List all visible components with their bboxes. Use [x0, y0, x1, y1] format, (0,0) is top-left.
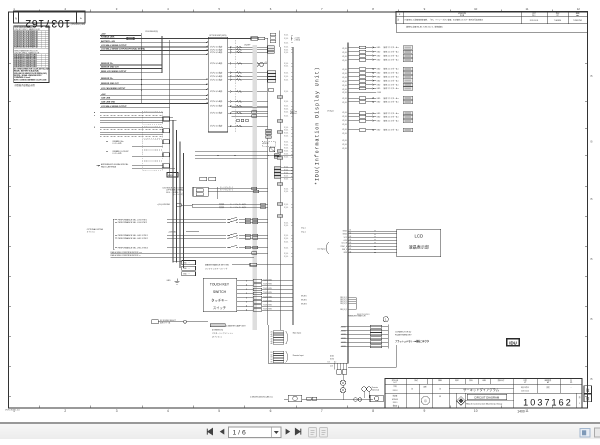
svg-text:出図: 出図: [482, 379, 486, 382]
svg-text:1/6: 1/6: [570, 382, 572, 384]
svg-text:2: 2: [64, 7, 66, 11]
first page button: [207, 429, 212, 435]
mid wires to right bus: [232, 108, 268, 118]
svg-text:4P5/H_GN.2Y0_06.1: 4P5/H_GN.2Y0_06.1: [5, 410, 20, 412]
svg-text:A2: A2: [350, 232, 352, 235]
svg-text:更新日付: 更新日付: [498, 379, 505, 382]
option circle 1 symbol: [383, 317, 388, 322]
status icon partial right: [595, 428, 600, 437]
svg-text:モードセレクト出力2: モードセレクト出力2: [230, 206, 246, 209]
svg-text:TOUCH SW: TOUCH SW: [263, 288, 272, 290]
svg-text:検図: 検図: [438, 379, 442, 382]
IDU bottom pin stubs: [330, 363, 347, 369]
svg-text:A: A: [80, 17, 82, 20]
stamp boxes right margin: [584, 386, 592, 402]
svg-text:接続コネクターA⇒: 接続コネクターA⇒: [384, 54, 400, 58]
svg-text:W_0/L: W_0/L: [342, 144, 347, 146]
svg-text:TOUCH SW: TOUCH SW: [263, 284, 272, 286]
vertical bus x279 short: [278, 31, 280, 48]
svg-text:W_0/L: W_0/L: [284, 238, 289, 240]
svg-text:CN ‰per: CN ‰per: [327, 110, 334, 113]
disabled page icon 1: [309, 428, 317, 438]
flash memory connector rows: [340, 325, 388, 349]
svg-text:B5 B6: B5 B6: [330, 359, 334, 361]
option box internal text rows and pins: [210, 45, 232, 128]
svg-text:接続コネクターA⇒: 接続コネクターA⇒: [384, 96, 400, 100]
svg-text:(接続No.変更 B4-B5.7⇒B3.74-7.5、接続変: (接続No.変更 B4-B5.7⇒B3.74-7.5、接続変更): [406, 24, 443, 28]
optional extra label: [87, 228, 104, 233]
svg-text:モードセレクト1: モードセレクト1: [220, 186, 233, 189]
svg-text:W_0/L: W_0/L: [284, 145, 289, 147]
bottom horizontal harness wire: [250, 396, 373, 400]
svg-text:印: 印: [424, 399, 427, 403]
svg-text:6: 6: [270, 7, 272, 11]
svg-text:接続コネクターA⇒: 接続コネクターA⇒: [384, 100, 400, 104]
svg-text:1: 1: [579, 403, 580, 405]
svg-text:W_0/L: W_0/L: [284, 43, 289, 45]
svg-text:GND: GND: [377, 117, 382, 119]
svg-text:NO. WIRE/CONNECTOR COLOR AS F: NO. WIRE/CONNECTOR COLOR AS FOLLOWS:: [14, 68, 50, 71]
svg-text:*IDU(Information Display Unit): *IDU(Information Display Unit): [315, 66, 321, 185]
title block outer: [385, 379, 582, 408]
antenna shield: [142, 162, 162, 171]
svg-text:+ LCD+GND: + LCD+GND: [112, 143, 122, 145]
svg-text:REMOTE SW101: REMOTE SW101: [357, 314, 370, 316]
svg-text:GND1: GND1: [343, 231, 348, 233]
wing text label mid: [290, 110, 298, 115]
connector pair boxes group 2: [163, 129, 170, 133]
pin labels bottom left of flash rows: [330, 355, 334, 361]
svg-text:B: B: [590, 74, 592, 78]
spare 2 connector box: [163, 153, 170, 157]
svg-text:RM_IN_1: RM_IN_1: [340, 301, 347, 303]
svg-text:発行年月日: 発行年月日: [521, 386, 529, 389]
svg-text:W_0/L: W_0/L: [284, 157, 289, 159]
svg-text:タッチキー: タッチキー: [211, 298, 227, 303]
title block row2 texts: [393, 385, 572, 393]
IDU connector row group 4: [348, 111, 413, 123]
svg-text:FLM_V: FLM_V: [342, 249, 348, 251]
terminal boxes below IDU: [337, 370, 347, 375]
svg-text:A.2: A.2: [334, 361, 336, 364]
svg-text:W_0/L: W_0/L: [342, 89, 347, 91]
remote switch pin stubs: [340, 297, 356, 311]
svg-text:RM_IN_1: RM_IN_1: [340, 299, 347, 301]
diode circles pair: [255, 62, 268, 66]
bottom option boxes pair: [200, 177, 216, 180]
svg-text:破: 破: [586, 387, 590, 392]
svg-text:12.3: 12.3: [330, 365, 333, 367]
svg-text:W_0/L: W_0/L: [284, 207, 289, 209]
inline connector boxes: [307, 397, 317, 400]
wire spec table lower half: [14, 50, 49, 68]
svg-text:W_0/L: W_0/L: [284, 127, 289, 129]
svg-text:GND: GND: [377, 51, 382, 53]
svg-text:1037162: 1037162: [523, 398, 573, 408]
svg-text:2019.10.24: 2019.10.24: [521, 391, 529, 393]
svg-text:10: 10: [474, 7, 478, 11]
svg-text:(レベル上げ): (レベル上げ): [173, 193, 183, 196]
LBO mode select switch text block: [163, 187, 184, 196]
IDU location box label: [507, 339, 520, 346]
svg-text:RADIO+ANTENNA: RADIO+ANTENNA: [101, 166, 117, 169]
svg-text:W_0/L: W_0/L: [284, 204, 289, 206]
dashed config box: [262, 141, 276, 146]
svg-text:+ GNDΩ: + GNDΩ: [294, 39, 301, 41]
maintenance key switch label and wire: [205, 263, 293, 270]
svg-text:B3: B3: [271, 357, 273, 359]
svg-text:接続コネクターA⇒: 接続コネクターA⇒: [384, 58, 400, 62]
svg-text:+24V/GND: +24V/GND: [168, 231, 177, 233]
svg-text:11: 11: [525, 409, 529, 413]
ground symbol: [167, 278, 180, 284]
IDU internal pin group labels: [342, 48, 347, 150]
svg-text:W_0/L: W_0/L: [284, 176, 289, 178]
svg-text:8: 8: [372, 409, 374, 413]
svg-text:GND: GND: [377, 88, 382, 90]
svg-text:PERFORMANCE SEL. LOG ETM 2: PERFORMANCE SEL. LOG ETM 2: [118, 221, 147, 224]
svg-text:サーキットダイアグラム: サーキットダイアグラム: [463, 387, 500, 392]
svg-text:Remote Input: Remote Input: [293, 354, 304, 357]
svg-text:Hitachi Construction Machinery: Hitachi Construction Machinery Group: [466, 402, 503, 405]
gauge box left: [288, 395, 301, 402]
nc sound device row: [152, 320, 208, 325]
relay wires to bus: [208, 186, 268, 199]
svg-text:W_0/L: W_0/L: [284, 38, 289, 40]
svg-text:S.Ry_2: S.Ry_2: [301, 232, 306, 234]
plus24v gnd label mid: [168, 231, 199, 233]
antenna connector box: [163, 164, 170, 168]
svg-text:GND: GND: [343, 252, 347, 254]
shielded cable group 2 dashed shield: [142, 126, 162, 138]
svg-text:GND: GND: [377, 60, 382, 62]
svg-text:+ LCD+GND: + LCD+GND: [112, 153, 122, 155]
IDU boundary vertical line: [347, 43, 349, 364]
svg-text:W_0/L: W_0/L: [284, 66, 289, 68]
svg-text:オプション出力: オプション出力: [210, 89, 223, 93]
revision row 1 text: [397, 18, 582, 22]
svg-text:B: B: [590, 140, 592, 144]
svg-text:W_0/L: W_0/L: [284, 256, 289, 258]
svg-text:承認: 承認: [414, 379, 418, 382]
spare wire 2 label: [106, 150, 163, 157]
svg-text:CONNECTOR for: CONNECTOR for: [395, 331, 412, 334]
svg-text:1: 1: [385, 318, 387, 322]
svg-text:CONN/WIRE: 0.5mm2: CONN/WIRE: 0.5mm2: [14, 77, 30, 79]
svg-text:CN1/USB-8P(S): CN1/USB-8P(S): [145, 31, 158, 33]
svg-text:オプション出力: オプション出力: [210, 124, 223, 128]
svg-text:接続コネクターA⇒: 接続コネクターA⇒: [384, 67, 400, 71]
svg-text:PERFORMANCE SEL. LH/C. ETM 4: PERFORMANCE SEL. LH/C. ETM 4: [118, 246, 148, 249]
LCD display box: [397, 229, 441, 257]
svg-text:A5 A6: A5 A6: [330, 355, 334, 358]
svg-text:GND ・・: GND ・・: [183, 263, 191, 265]
svg-text:IT,接続No.と配線接続表更新、「ST.」ライン・ボタン変: IT,接続No.と配線接続表更新、「ST.」ライン・ボタン変更、IDU接続コネク…: [405, 18, 484, 22]
svg-text:TOUCH SW: TOUCH SW: [263, 279, 272, 281]
svg-text:GND: GND: [377, 47, 382, 49]
svg-text:オプション出力: オプション出力: [210, 70, 223, 74]
svg-text:マスターランプユニットへ: マスターランプユニットへ: [212, 331, 233, 335]
svg-text:TOUCH SW: TOUCH SW: [263, 296, 272, 298]
svg-text:+5V: +5V: [264, 62, 268, 64]
svg-text:W_0/L: W_0/L: [342, 85, 347, 87]
dotted line right of option box: [234, 40, 236, 132]
junction dots on bus: [141, 79, 142, 91]
lamp circles vertical pair: [340, 374, 345, 400]
svg-text:TOUCH SW: TOUCH SW: [263, 305, 272, 307]
svg-text:GND: GND: [167, 280, 172, 282]
svg-text:W_0/L: W_0/L: [284, 136, 289, 138]
svg-text:B2: B2: [271, 354, 273, 356]
svg-text:W_0/L: W_0/L: [342, 120, 347, 122]
revision history table: [396, 11, 588, 24]
shielded cable group 1 dashed shield: [142, 111, 162, 124]
svg-text:+5GB: +5GB: [377, 92, 382, 94]
svg-text:W_0/L: W_0/L: [284, 225, 289, 227]
sensor wire group C: [100, 78, 208, 90]
svg-text:12: 12: [577, 7, 581, 11]
svg-text:オプション出力: オプション出力: [210, 61, 223, 65]
gauge box right: [370, 395, 383, 402]
svg-text:W_0/L: W_0/L: [342, 112, 347, 114]
svg-text:A1: A1: [271, 330, 273, 333]
flipped microfilm title block top-left: [14, 11, 85, 29]
zone number digits bottom edge: [13, 406, 552, 414]
svg-text:変更: 変更: [546, 386, 550, 389]
svg-text:CN2/8P: CN2/8P: [244, 45, 251, 47]
svg-text:GND: GND: [377, 113, 382, 115]
svg-text:作成: 作成: [393, 385, 397, 388]
svg-text:3: 3: [116, 409, 118, 413]
shielded group 2 wires: [94, 127, 163, 137]
option unit box: [208, 37, 228, 132]
vertical bus x268: [267, 38, 269, 325]
svg-text:WIRE2 HARNESSES W/COLOR: WIRE2 HARNESSES W/COLOR: [14, 50, 38, 53]
remote input pin stack: [271, 351, 304, 363]
main input pin stack: [271, 330, 302, 345]
svg-text:液晶表示部: 液晶表示部: [409, 244, 429, 250]
svg-text:NR.AR.1: NR.AR.1: [301, 295, 307, 298]
svg-text:接続コネクターA⇒: 接続コネクターA⇒: [384, 119, 400, 123]
svg-text:GND: GND: [377, 73, 382, 75]
flash connector down wire: [348, 345, 397, 367]
svg-text:WIRE HARNESS Rating: WIRE HARNESS Rating: [14, 26, 32, 29]
svg-text:W_0/L: W_0/L: [284, 52, 289, 54]
svg-text:W_0/L: W_0/L: [284, 112, 289, 114]
relay K1 box: [193, 187, 208, 196]
svg-text:TOUCH SW: TOUCH SW: [263, 292, 272, 294]
svg-text:A3: A3: [350, 235, 352, 238]
svg-text:A7: A7: [350, 247, 352, 250]
svg-text:GND: GND: [377, 130, 382, 132]
svg-text:FLASH MEMORY: FLASH MEMORY: [395, 334, 412, 337]
svg-text:1 / 6: 1 / 6: [233, 430, 246, 437]
connector pair boxes group 1: [163, 117, 170, 121]
spare 1 shield: [142, 140, 162, 150]
IDU connector row group 2: [348, 67, 413, 91]
svg-text:CIRCUIT DIAGRAM: CIRCUIT DIAGRAM: [474, 395, 500, 399]
small boxes right column mid: [267, 71, 275, 92]
svg-text:HITACHI: HITACHI: [392, 398, 398, 401]
previous page button: [220, 429, 225, 435]
svg-text:(EXPANSION): (EXPANSION): [212, 328, 223, 331]
page number combobox: [229, 427, 282, 438]
svg-text:頁: 頁: [579, 395, 581, 399]
svg-text:Main Input: Main Input: [293, 331, 302, 334]
svg-text:W_0/L: W_0/L: [284, 116, 289, 118]
vertical bus lines mid-left: [141, 33, 183, 268]
svg-text:照合: 照合: [469, 379, 473, 382]
svg-text:GND: GND: [377, 98, 382, 100]
svg-text:4: 4: [167, 409, 169, 413]
svg-text:OPTION UNIT(GPS): OPTION UNIT(GPS): [209, 35, 227, 37]
svg-text:W_0/L: W_0/L: [284, 253, 289, 255]
svg-text:to MASTER LAMP UNIT: to MASTER LAMP UNIT: [226, 324, 246, 327]
last page button: [295, 429, 300, 435]
svg-text:接続コネクターA⇒: 接続コネクターA⇒: [384, 49, 400, 53]
extra dark cells right column: [277, 96, 283, 218]
svg-text:2019.10.24: 2019.10.24: [530, 20, 539, 22]
svg-text:棄: 棄: [586, 396, 590, 401]
svg-text:W_0/L: W_0/L: [342, 98, 347, 100]
svg-text:W_0/L: W_0/L: [284, 188, 289, 190]
svg-text:設計G名: 設計G名: [392, 379, 399, 382]
svg-text:B4: B4: [271, 359, 273, 361]
next page button: [286, 429, 291, 435]
svg-text:接続コネクターA⇒: 接続コネクターA⇒: [384, 78, 400, 82]
svg-text:GND ・・: GND ・・: [183, 274, 191, 276]
svg-text:接続コネクターA⇒: 接続コネクターA⇒: [384, 71, 400, 75]
title block grid lines: [385, 379, 582, 408]
circuit diagram english label: [467, 394, 507, 399]
svg-text:B: B: [590, 377, 592, 381]
svg-text:W_0/L: W_0/L: [284, 35, 289, 37]
monitor wires bottom left rows: [111, 251, 268, 257]
svg-text:W_0/L: W_0/L: [284, 101, 289, 103]
svg-text:2019.9: 2019.9: [393, 402, 398, 404]
svg-text:W_0/L: W_0/L: [342, 148, 347, 150]
svg-text:接続コネクターA⇒: 接続コネクターA⇒: [384, 75, 400, 79]
svg-text:A4: A4: [350, 238, 352, 241]
svg-text:3: 3: [116, 7, 118, 11]
svg-text:モードセレクト出力1: モードセレクト出力1: [230, 203, 246, 206]
svg-text:W_0/L: W_0/L: [342, 129, 347, 131]
svg-text:GND2: GND2: [343, 234, 348, 236]
IDU connector row single 5: [348, 128, 413, 132]
selection bracket: [113, 219, 114, 249]
net labels left of IDU lower: [301, 228, 336, 364]
svg-text:RM_IN_1: RM_IN_1: [340, 297, 347, 299]
svg-text:W_0/L: W_0/L: [342, 77, 347, 79]
resistor optional circles: [362, 386, 380, 398]
svg-text:PERFORMANCE SEL. LH/C. ETM 1: PERFORMANCE SEL. LH/C. ETM 1: [118, 234, 148, 237]
wire group D: [100, 93, 208, 104]
svg-text:W_0/L: W_0/L: [342, 56, 347, 58]
svg-text:W_0/L: W_0/L: [342, 92, 347, 94]
main connector box with label: [167, 173, 178, 178]
svg-text:接続コネクターA⇒: 接続コネクターA⇒: [384, 115, 400, 119]
svg-text:印: 印: [439, 388, 441, 391]
svg-text:フラッシュメモリー■接続コネクタ: フラッシュメモリー■接続コネクタ: [395, 339, 429, 343]
wire end pin hooks at option box: [204, 42, 208, 104]
svg-text:A5: A5: [350, 241, 352, 244]
svg-text:■■: ■■: [576, 15, 578, 17]
LCD signal brace: [327, 243, 330, 254]
flash memory label: [395, 331, 412, 337]
svg-text:(Optional): (Optional): [372, 388, 380, 391]
svg-text:W_0/L: W_0/L: [284, 130, 289, 132]
svg-text:to MIDI/M (DM,DN,CAN,OL): to MIDI/M (DM,DN,CAN,OL): [250, 396, 273, 399]
box on wire row 2: [251, 37, 258, 40]
svg-text:W_0/L: W_0/L: [284, 148, 289, 150]
svg-text:A8: A8: [350, 250, 352, 253]
svg-text:W_0/L: W_0/L: [342, 69, 347, 71]
svg-text:TOUCH SW: TOUCH SW: [263, 300, 272, 302]
extra mid wires: [195, 152, 268, 159]
svg-text:A3: A3: [547, 381, 549, 384]
svg-text:W_0/L: W_0/L: [342, 102, 347, 104]
pdf viewer toolbar: [0, 422, 600, 439]
svg-text:GND: GND: [377, 121, 382, 123]
svg-text:制定: 制定: [455, 379, 459, 382]
svg-text:接続コネクターA⇒: 接続コネクターA⇒: [384, 128, 400, 132]
svg-text:11: 11: [525, 7, 528, 11]
svg-text:開閉器: 開閉器: [219, 206, 224, 209]
spare wire 1 label: [106, 140, 163, 146]
svg-text:SYNC_H: SYNC_H: [341, 246, 348, 248]
svg-text:5: 5: [218, 409, 220, 413]
svg-text:A6: A6: [350, 244, 352, 247]
svg-text:+3.3V: +3.3V: [343, 240, 348, 242]
svg-text:5: 5: [218, 7, 220, 11]
IDU connector row group 1: [348, 45, 413, 61]
svg-text:W_0/L: W_0/L: [342, 48, 347, 50]
svg-text:オプション出力: オプション出力: [210, 111, 223, 115]
svg-text:LCD: LCD: [414, 233, 423, 238]
svg-text:SWITCH: SWITCH: [213, 290, 227, 294]
right stack stubs: [281, 168, 294, 177]
svg-text:GND: GND: [377, 84, 382, 86]
svg-text:W_0/L: W_0/L: [342, 81, 347, 83]
svg-text:Wing Text: Wing Text: [290, 110, 298, 113]
svg-text:W_0/L: W_0/L: [342, 52, 347, 54]
antenna input label: [97, 163, 176, 168]
inline circle pair: [354, 398, 362, 401]
svg-text:B: B: [590, 257, 592, 261]
svg-text:W_0/L: W_0/L: [284, 47, 289, 49]
dark box stack right mid2: [274, 154, 279, 159]
single +5V row: [348, 92, 382, 94]
dark box stack tall right: [274, 167, 281, 179]
svg-text:W_0/L: W_0/L: [342, 133, 347, 135]
dark box stack right mid1: [266, 129, 271, 138]
pin label column left of IDU: [284, 35, 293, 258]
spare 2 shield: [142, 151, 162, 161]
svg-text:IDU: IDU: [509, 340, 517, 345]
zone ticks left edge: [9, 63, 12, 396]
svg-text:A1: A1: [350, 229, 352, 232]
svg-text:8: 8: [372, 7, 374, 11]
revision row 2: [396, 24, 588, 32]
junction wire row 155: [195, 155, 293, 156]
touch key switch box: [203, 278, 236, 311]
svg-text:オプション: オプション: [87, 230, 96, 233]
small circle trio mid: [237, 119, 249, 122]
svg-text:1400: 1400: [517, 410, 525, 414]
svg-text:2: 2: [64, 409, 66, 413]
svg-text:接続コネクターA⇒: 接続コネクターA⇒: [384, 45, 400, 49]
power wire group A labels and wires: [100, 33, 251, 55]
